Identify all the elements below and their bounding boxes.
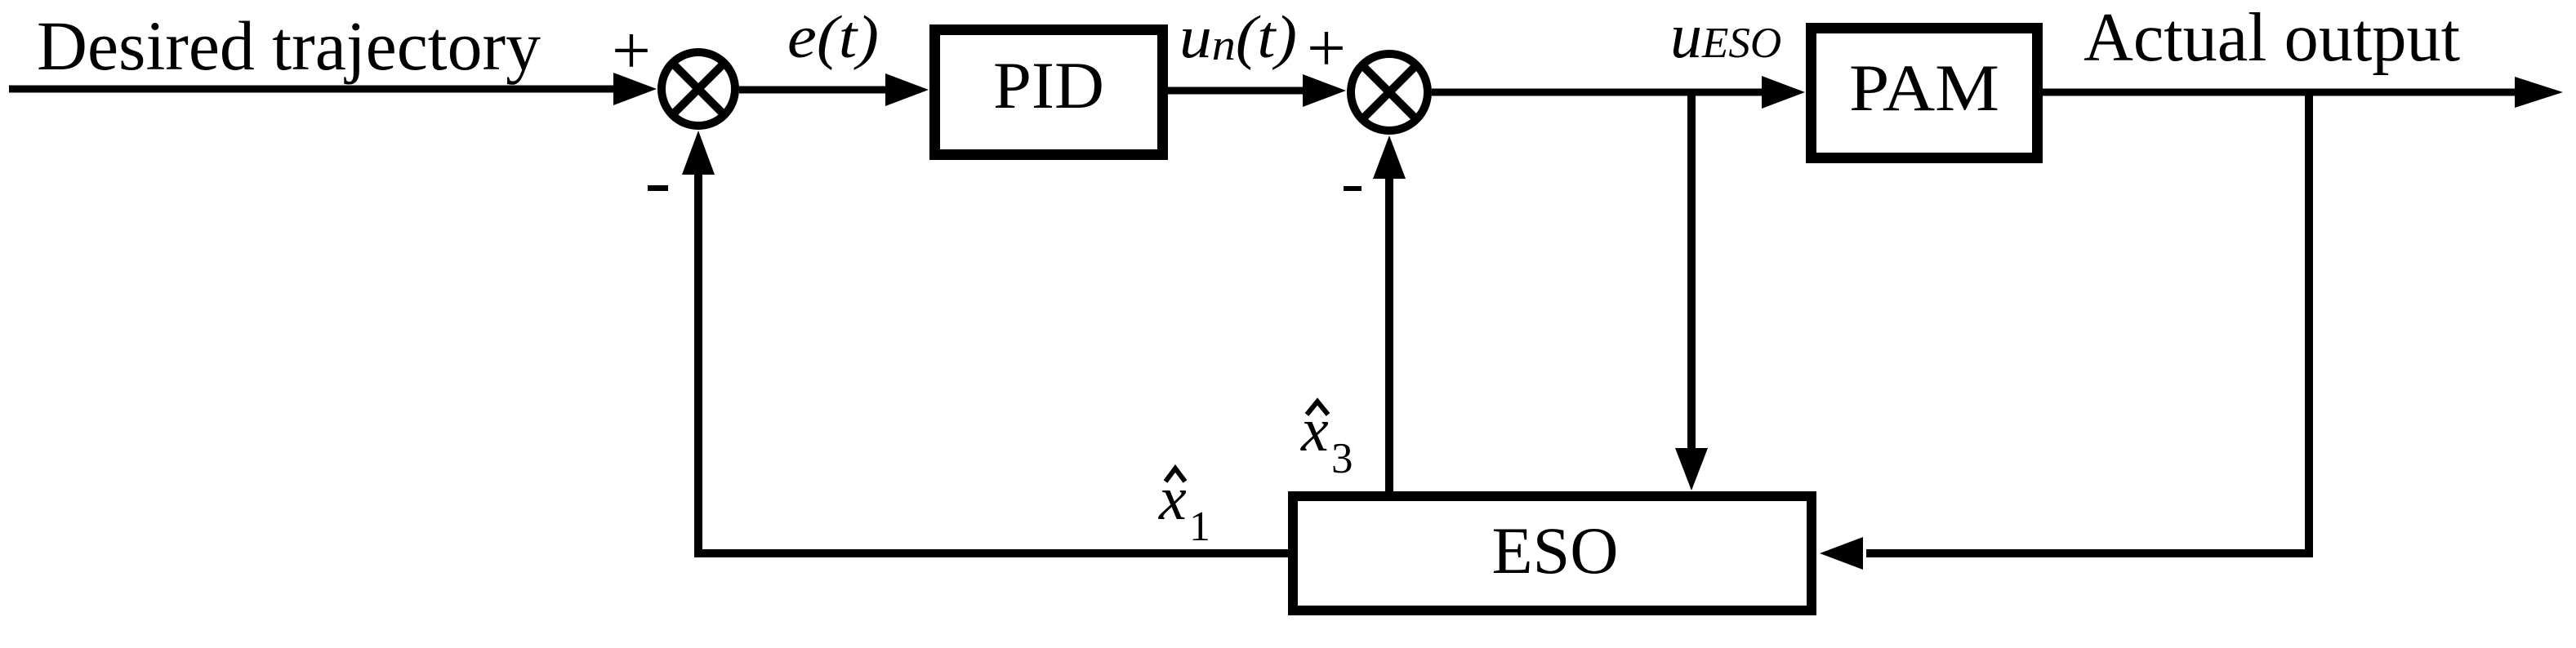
arrowhead into ESO top: [1675, 448, 1708, 490]
wire S2 to PAM: [1432, 89, 1767, 96]
arrowhead into S1 bottom: [682, 131, 715, 175]
svg-text:Actual output: Actual output: [2084, 0, 2460, 76]
svg-text:+: +: [612, 12, 651, 89]
block ESO: [1293, 496, 1812, 610]
wire x1hat vertical: [694, 175, 702, 557]
arrowhead into PID: [885, 73, 929, 106]
svg-text:3: 3: [1331, 435, 1353, 482]
wire x1hat horizontal: [694, 549, 1288, 557]
svg-text:e(t): e(t): [787, 4, 879, 71]
wire x3hat vertical: [1385, 178, 1393, 491]
svg-text:PAM: PAM: [1849, 51, 1999, 125]
label minus at S1: [648, 185, 668, 191]
wire PAM to output: [2043, 89, 2517, 96]
svg-text:un(t): un(t): [1179, 4, 1297, 71]
block PID: [935, 30, 1163, 155]
node junction on wire to PAM: [1687, 92, 1696, 448]
wire S1 to PID: [739, 87, 890, 94]
wire output feedback horizontal: [1866, 549, 2313, 557]
arrowhead into PAM: [1762, 76, 1805, 109]
svg-text:+: +: [1307, 10, 1346, 87]
arrowhead into ESO right: [1820, 537, 1863, 570]
arrowhead output: [2515, 77, 2563, 108]
svg-text:ESO: ESO: [1492, 513, 1619, 588]
arrowhead into summing junction S2: [1303, 74, 1346, 107]
arrowhead into summing junction S1: [613, 73, 657, 105]
label x3hat: [1300, 396, 1353, 482]
summing junction S2: [1351, 54, 1428, 131]
arrowhead into S2 bottom: [1373, 135, 1406, 179]
label x1hat: [1158, 464, 1210, 550]
wire PID to S2: [1168, 87, 1307, 95]
wire output feedback vertical: [2305, 92, 2313, 553]
svg-text:1: 1: [1189, 504, 1210, 550]
block PAM: [1812, 29, 2038, 158]
svg-text:PID: PID: [993, 48, 1104, 122]
summing junction S1: [662, 52, 735, 126]
label minus at S2: [1344, 186, 1362, 191]
svg-text:Desired trajectory: Desired trajectory: [37, 7, 541, 85]
wire input line: [9, 86, 621, 93]
